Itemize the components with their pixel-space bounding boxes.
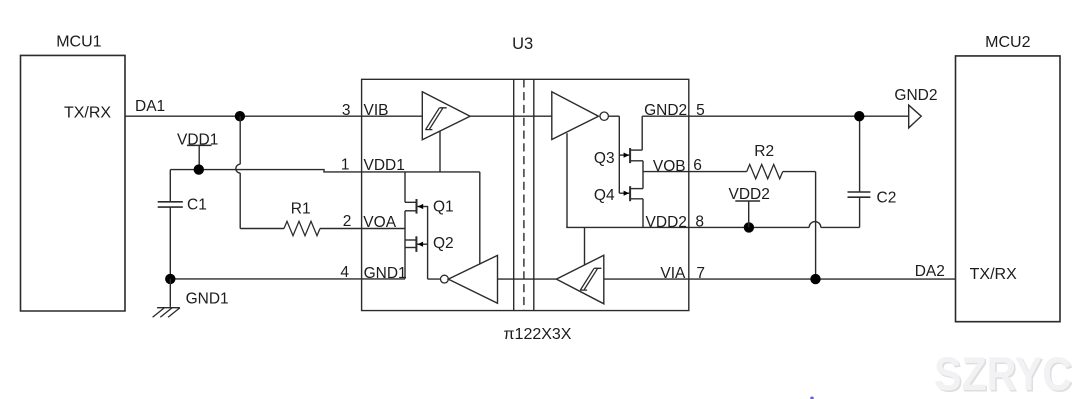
svg-text:MCU1: MCU1 (56, 33, 101, 50)
svg-text:C1: C1 (187, 197, 207, 214)
svg-text:VDD1: VDD1 (177, 131, 218, 148)
svg-text:6: 6 (693, 157, 702, 174)
svg-text:VDD2: VDD2 (729, 186, 770, 203)
svg-text:3: 3 (342, 102, 351, 119)
svg-text:DA2: DA2 (915, 263, 945, 280)
svg-text:VIA: VIA (660, 265, 686, 282)
svg-text:GND2: GND2 (894, 87, 937, 104)
svg-text:MCU2: MCU2 (985, 34, 1030, 51)
svg-text:TX/RX: TX/RX (64, 105, 111, 122)
svg-text:VDD2: VDD2 (646, 214, 687, 231)
svg-text:7: 7 (696, 265, 705, 282)
svg-text:U3: U3 (512, 35, 533, 53)
svg-text:Q3: Q3 (594, 150, 615, 167)
svg-text:5: 5 (696, 102, 705, 119)
svg-text:1: 1 (341, 156, 350, 173)
svg-text:GND1: GND1 (186, 290, 229, 307)
svg-text:4: 4 (340, 264, 349, 281)
svg-text:VOB: VOB (653, 158, 686, 175)
svg-text:C2: C2 (877, 190, 897, 207)
svg-text:VDD1: VDD1 (364, 157, 405, 174)
svg-text:Q2: Q2 (433, 235, 454, 252)
svg-text:2: 2 (343, 213, 352, 230)
svg-text:DA1: DA1 (135, 98, 165, 115)
svg-text:R1: R1 (291, 201, 311, 218)
svg-text:SZRYC: SZRYC (934, 347, 1072, 399)
svg-text:8: 8 (695, 214, 704, 231)
svg-text:VIB: VIB (364, 102, 389, 119)
svg-text:VOA: VOA (363, 214, 396, 231)
svg-text:TX/RX: TX/RX (970, 266, 1017, 283)
svg-text:R2: R2 (754, 143, 774, 160)
svg-text:Q1: Q1 (433, 199, 454, 216)
svg-text:GND1: GND1 (364, 265, 407, 282)
svg-text:GND2: GND2 (644, 102, 687, 119)
svg-text:Q4: Q4 (594, 187, 615, 204)
svg-text:π122X3X: π122X3X (504, 326, 572, 343)
